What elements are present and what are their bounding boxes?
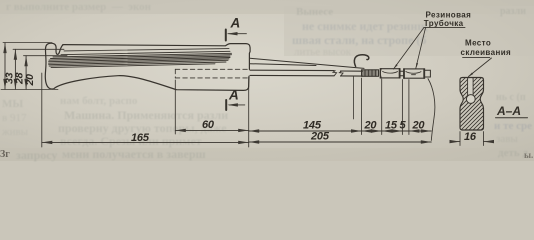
handle top edge and end bead bbox=[63, 44, 250, 70]
dimension 33 (vertical, left) bbox=[3, 43, 52, 90]
svg-text:15: 15 bbox=[385, 120, 398, 132]
svg-text:A: A bbox=[230, 16, 241, 31]
svg-text:Трубочка: Трубочка bbox=[424, 19, 464, 28]
the technical drawing bbox=[0, 0, 534, 161]
bottom reference extension line for 33/28/20 bbox=[1, 88, 58, 90]
rubber tube 2 bbox=[404, 69, 425, 78]
A-A underline bbox=[496, 117, 528, 119]
extension line at handle right face bbox=[248, 77, 250, 147]
tapered rod from handle bbox=[250, 58, 364, 68]
svg-text:60: 60 bbox=[202, 119, 215, 131]
dimension 20 (tube 2) bbox=[409, 129, 431, 132]
dimension 205 bbox=[249, 140, 432, 143]
svg-text:20: 20 bbox=[364, 120, 378, 132]
dimension 20 (ribbed section) bbox=[362, 129, 382, 132]
dimension 5 (gap) bbox=[402, 130, 409, 132]
bare rod in gap bbox=[400, 71, 404, 75]
hook bbox=[354, 55, 368, 67]
dimension 20 (vertical, left) bbox=[24, 56, 68, 90]
extension line at tube 1 start bbox=[381, 79, 383, 135]
svg-text:165: 165 bbox=[131, 132, 150, 144]
bleed-through text from reverse page bbox=[6, 1, 151, 13]
section cut mark A (top) bbox=[226, 30, 247, 41]
leader lines: rubber tube label bbox=[424, 26, 465, 28]
svg-text:205: 205 bbox=[310, 131, 330, 143]
center hole bbox=[466, 95, 475, 104]
svg-text:5: 5 bbox=[400, 120, 407, 132]
ribbed (wound) section bbox=[362, 70, 379, 77]
extension line at handle left end bbox=[41, 73, 43, 147]
paper background with light center bbox=[0, 0, 534, 161]
handle body outline : knob, groove, underside bbox=[45, 43, 249, 90]
16 dimension bbox=[460, 132, 484, 146]
dimension 165 bbox=[42, 141, 249, 144]
svg-text:склеивания: склеивания bbox=[461, 48, 512, 57]
dimension 28 (vertical, left) bbox=[13, 49, 64, 89]
svg-text:20: 20 bbox=[24, 74, 36, 87]
section outline bbox=[460, 78, 484, 131]
rod end beyond tube bbox=[425, 70, 431, 77]
short extension line at hook root bbox=[353, 77, 355, 120]
svg-text:16: 16 bbox=[464, 131, 477, 143]
extension line at ribbed section start bbox=[361, 78, 363, 135]
wood grain shading lines on handle top bbox=[64, 49, 229, 51]
break symbol bbox=[333, 71, 337, 76]
svg-text:A: A bbox=[228, 87, 239, 102]
hidden hole (dashed) bbox=[175, 69, 247, 78]
dimension 15 (tube 1) bbox=[382, 129, 403, 132]
section A-A : hatch bbox=[450, 53, 490, 177]
section cut mark A (bottom) bbox=[226, 100, 245, 110]
svg-text:А–А: А–А bbox=[496, 104, 521, 118]
svg-text:20: 20 bbox=[412, 120, 426, 132]
dimension 60 bbox=[175, 129, 248, 132]
slot (glue hole) white bbox=[468, 78, 474, 95]
leader line: gluing spot label bbox=[463, 56, 490, 58]
extension line at tube 2 start bbox=[408, 80, 410, 135]
curved extension line from rod end bbox=[428, 79, 435, 141]
extension line at hole start bbox=[174, 80, 176, 134]
dimension 145 bbox=[249, 129, 362, 132]
extension line at tube 1 end bbox=[401, 80, 403, 135]
svg-text:Место: Место bbox=[465, 39, 491, 48]
rubber tube 1 bbox=[380, 69, 400, 78]
